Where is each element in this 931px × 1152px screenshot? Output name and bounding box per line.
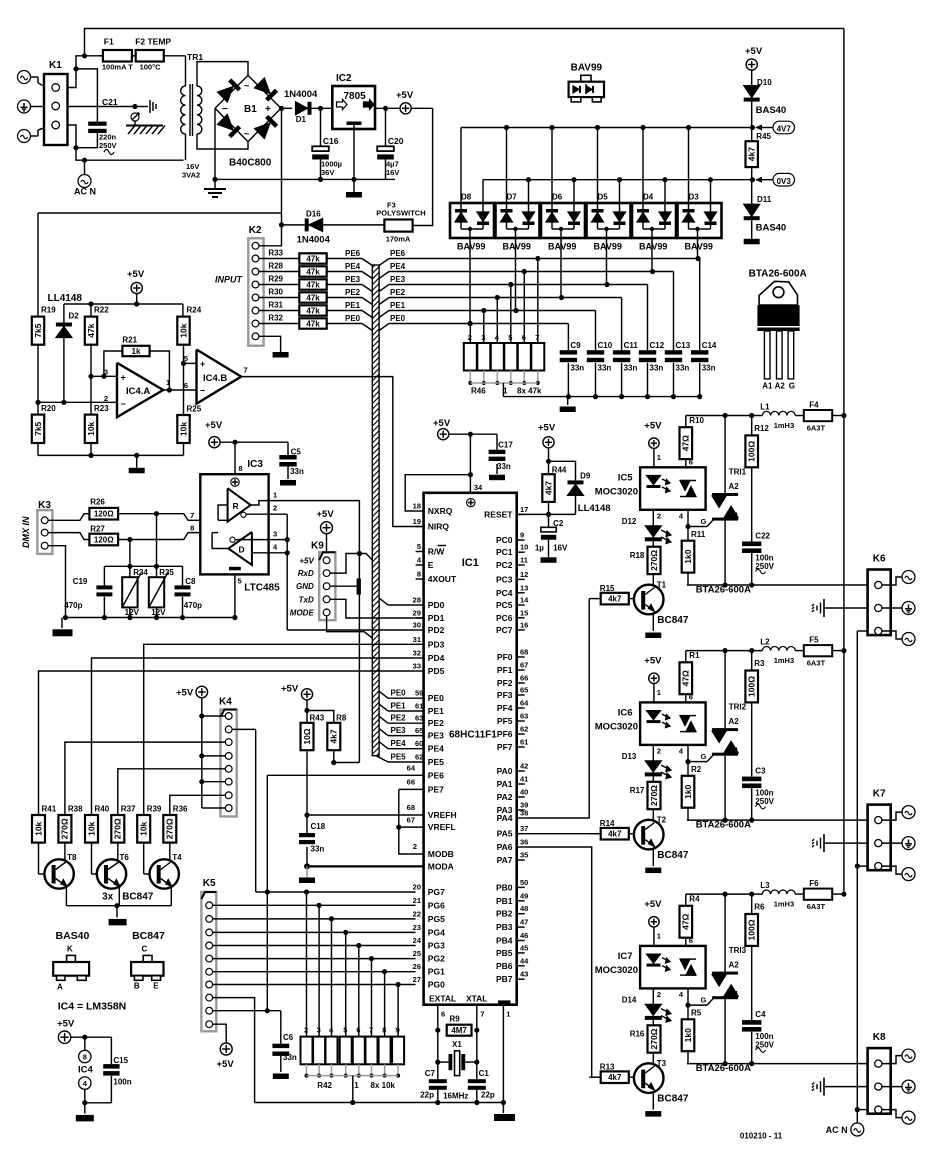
svg-text:IC7: IC7 [618,951,633,962]
svg-text:PE7: PE7 [428,784,444,794]
wire - K9 RxD to RO line [330,554,372,574]
transistor T4 BC847 [143,843,145,874]
svg-text:D7: D7 [507,193,518,202]
wire - R30 to bus PE [327,297,362,299]
svg-text:C7: C7 [425,1069,436,1078]
svg-text:~: ~ [244,81,249,91]
svg-text:D16: D16 [306,210,321,219]
capacitor C11 33n [613,350,630,354]
wire - +5V to IC3 pin8 and C5 [220,441,288,443]
svg-text:PE5: PE5 [428,757,444,767]
svg-text:68HC11F1: 68HC11F1 [449,730,497,741]
wire - +5V to NXRQ [405,475,470,511]
chassis earth symbol [149,100,151,113]
svg-text:MODA: MODA [428,861,454,871]
svg-text:F5: F5 [809,636,819,645]
svg-text:RxD: RxD [298,569,314,578]
svg-text:K5: K5 [203,878,216,889]
svg-text:PC7: PC7 [496,625,513,635]
svg-text:BAV99: BAV99 [685,242,713,252]
svg-text:PC5: PC5 [496,600,513,610]
svg-text:B: B [134,982,140,991]
svg-text:PG6: PG6 [428,900,445,910]
svg-text:TxD: TxD [299,595,314,604]
svg-text:PF2: PF2 [497,678,513,688]
svg-text:3VA2: 3VA2 [182,171,200,180]
wire - R32 to bus PE [327,323,362,325]
svg-text:BTA26-600A: BTA26-600A [749,269,807,280]
svg-text:IC4.A: IC4.A [126,386,150,397]
svg-text:7: 7 [480,1010,484,1019]
diode array rail 0V3 [483,179,752,181]
svg-text:C3: C3 [755,767,766,776]
svg-text:43: 43 [520,970,528,979]
svg-text:PB4: PB4 [496,936,513,946]
svg-text:35: 35 [520,851,528,860]
svg-text:A1: A1 [762,382,773,391]
wire - TR1 secondary to bridge [197,62,248,86]
IC1 right pins [517,513,525,515]
svg-text:47k: 47k [306,307,320,316]
diode array rail 4V7 [461,127,752,129]
svg-text:63: 63 [415,714,423,723]
svg-text:PD2: PD2 [428,625,445,635]
wire - K7 pin3 to neutral bus [857,865,867,867]
ground rail under supply [215,178,395,180]
svg-text:+5V: +5V [205,420,223,431]
svg-text:LTC485: LTC485 [244,583,280,594]
wire - K9 GND bar [330,585,356,587]
svg-text:22p: 22p [420,1090,434,1099]
svg-text:+5V: +5V [217,1059,235,1070]
ground symbol below bridge [214,179,216,189]
svg-text:PA2: PA2 [497,792,513,802]
capacitor C14 33n [691,350,708,354]
diode D10 BAS40 [751,70,753,86]
svg-text:1: 1 [506,1010,510,1019]
svg-text:+: + [121,373,126,383]
svg-text:R29: R29 [268,275,283,284]
wire - IC3 pins 2-3-4 junction [286,514,288,630]
svg-text:33n: 33n [676,364,690,373]
svg-text:R28: R28 [268,262,283,271]
svg-text:33: 33 [413,662,421,671]
capacitor C21 [76,69,97,122]
svg-text:7805: 7805 [344,91,367,102]
node 0V3 [755,177,762,183]
svg-text:8: 8 [417,570,421,579]
wire - PD3 row to R39 [144,644,416,815]
svg-text:R8: R8 [336,714,347,723]
wire - K5 pin10 to +5V [213,1024,226,1043]
svg-text:PG4: PG4 [428,927,445,937]
svg-text:33n: 33n [598,364,612,373]
svg-text:R39: R39 [147,805,162,814]
svg-text:R6: R6 [754,903,765,912]
svg-text:PE1: PE1 [391,702,407,711]
svg-text:10: 10 [520,543,528,552]
svg-text:PF6: PF6 [497,729,513,739]
svg-text:T1: T1 [657,581,667,590]
svg-text:4XOUT: 4XOUT [428,574,457,584]
svg-text:R11: R11 [691,530,706,539]
wires - K4 even pins to +5V [202,715,225,717]
svg-text:R12: R12 [754,424,769,433]
capacitor C10 33n [587,350,604,354]
svg-text:10k: 10k [178,422,188,436]
svg-text:2: 2 [413,842,417,851]
svg-text:100mA T: 100mA T [102,63,133,72]
svg-text:PB3: PB3 [496,922,513,932]
ground bar C18 [306,866,308,877]
wire - PE row right of bus [379,259,389,266]
svg-text:38: 38 [520,809,528,818]
capacitor C12 33n [639,350,656,354]
wire - PE6 long row [267,774,423,776]
svg-text:10k: 10k [139,821,149,835]
svg-text:R5: R5 [691,1009,702,1018]
svg-text:63: 63 [520,712,528,721]
svg-text:PA0: PA0 [497,766,513,776]
wire - K1 neutral down [68,125,184,160]
svg-text:PE1: PE1 [345,301,361,310]
svg-text:PB5: PB5 [496,948,513,958]
svg-text:G: G [789,382,795,391]
svg-text:11: 11 [520,556,528,565]
svg-text:16: 16 [520,621,528,630]
wire - R43 to VREFH row [306,750,308,833]
capacitor C9 33n [560,350,577,354]
svg-text:T3: T3 [657,1059,667,1068]
svg-text:33n: 33n [497,462,511,471]
svg-text:C16: C16 [323,136,339,146]
svg-text:100°C: 100°C [140,63,162,72]
wire - PG row [213,918,416,920]
svg-text:D14: D14 [622,996,637,1005]
svg-text:PE0: PE0 [428,693,444,703]
svg-text:1: 1 [273,491,277,500]
svg-text:PE4: PE4 [390,262,406,271]
svg-text:R24: R24 [187,306,202,315]
svg-text:PE4: PE4 [345,262,361,271]
svg-text:PB6: PB6 [496,961,513,971]
hatched earth plate [126,125,163,127]
ground bar bottom right [502,1103,504,1114]
ground rail opamps [38,454,184,456]
svg-text:2: 2 [273,504,277,513]
svg-text:MODE: MODE [290,608,315,617]
svg-text:+5V: +5V [317,509,335,520]
svg-text:PF1: PF1 [497,665,513,675]
svg-text:E: E [153,982,159,991]
svg-text:TRI1: TRI1 [729,468,747,477]
wire - IC3 pin4 [252,552,287,554]
wire - IC3 pin2 [246,513,287,515]
ground bar C5 [280,480,296,486]
wire - PE row right of bus [379,272,389,279]
svg-text:PE2: PE2 [390,288,406,297]
svg-text:7k5: 7k5 [33,323,43,337]
svg-text:XTAL: XTAL [466,994,488,1004]
svg-text:C18: C18 [311,822,326,831]
ground bar [567,397,569,405]
svg-text:40: 40 [520,788,528,797]
svg-text:PC1: PC1 [496,547,513,557]
wire - R31 to bus PE [327,310,362,312]
svg-text:BAV99: BAV99 [594,242,622,252]
wire - K9 TxD / PD1 [330,599,423,618]
wire - R33 to bus PE [327,258,362,260]
svg-text:R2: R2 [691,765,702,774]
svg-text:7: 7 [244,366,248,375]
svg-text:PC3: PC3 [496,574,513,584]
svg-text:AC N: AC N [826,1125,848,1135]
svg-text:8: 8 [83,1053,87,1062]
svg-text:INPUT: INPUT [215,275,244,285]
IC4 pin 4 circle [79,1077,91,1089]
svg-text:B40C800: B40C800 [229,158,272,169]
svg-text:C22: C22 [755,532,770,541]
svg-text:C11: C11 [624,341,639,350]
resistor R31 47k [259,310,299,312]
bottom ground rail [255,1102,504,1104]
svg-text:6: 6 [441,1010,445,1019]
wire - R26 to IC3 pin7 [118,514,218,521]
svg-text:D6: D6 [552,193,563,202]
svg-text:NXRQ: NXRQ [428,506,453,516]
svg-text:33n: 33n [624,364,638,373]
svg-text:PC4: PC4 [496,588,513,598]
svg-text:IC4 = LM358N: IC4 = LM358N [58,1001,127,1013]
svg-text:30: 30 [413,621,421,630]
K6 phase symbols [882,577,902,585]
bridge rectifier B1 [215,75,281,141]
svg-text:BAV99: BAV99 [548,242,576,252]
wire - PG row [213,945,416,947]
svg-text:R13: R13 [600,1063,615,1072]
transistor T8 BC847 [38,843,40,874]
svg-text:PE1: PE1 [428,706,444,716]
IC3 pin5 to ground [234,574,236,617]
triac channel 3 [589,889,867,1117]
svg-text:R43: R43 [310,714,325,723]
wire - MODA row (thick) [307,865,424,867]
wire - opamp +5V rail [64,303,183,305]
svg-text:10k: 10k [86,821,96,835]
svg-text:4k7: 4k7 [747,147,757,161]
wire - K5 pin8 to ground [213,998,255,1103]
svg-text:R19: R19 [41,306,56,315]
svg-text:47k: 47k [306,255,320,264]
svg-text:LL4148: LL4148 [48,293,83,304]
svg-text:47k: 47k [306,294,320,303]
svg-text:C4: C4 [755,1010,766,1019]
svg-text:T8: T8 [67,853,77,862]
svg-text:−: − [200,386,205,396]
svg-text:R41: R41 [42,805,57,814]
svg-text:24: 24 [413,936,422,945]
IC3 internal wires [218,519,228,521]
svg-text:47k: 47k [306,320,320,329]
svg-text:BAV99: BAV99 [571,63,603,74]
svg-text:PD0: PD0 [428,600,445,610]
svg-text:R17: R17 [630,786,645,795]
svg-text:20: 20 [413,883,421,892]
wire - K2 pin1 to D16 line [259,225,282,246]
wire - IC2 output to +5V [375,107,433,109]
svg-text:C21: C21 [102,97,118,107]
receiver R triangle [228,488,251,521]
svg-text:−: − [121,399,126,409]
svg-text:65: 65 [520,686,528,695]
svg-text:K7: K7 [873,789,886,800]
svg-text:8: 8 [190,524,194,533]
svg-text:RESET: RESET [484,509,513,519]
svg-text:L2: L2 [760,638,770,647]
transistor T6 BC847 [91,843,93,874]
svg-text:K6: K6 [873,554,886,565]
svg-text:PB2: PB2 [496,909,513,919]
wire - PE row right of bus [379,311,389,318]
svg-text:120Ω: 120Ω [94,536,114,545]
resistor R9 4M7 [447,1025,472,1036]
wire - IC3 pin3 [235,539,287,541]
svg-text:C9: C9 [570,341,581,350]
svg-text:1: 1 [354,1081,359,1090]
svg-text:R32: R32 [268,314,283,323]
wire - K5 pin9 / C6 / PE6 link [213,1010,281,1012]
svg-text:F1: F1 [104,37,114,47]
wire - K3 pin3 to ground [49,546,66,618]
svg-text:22: 22 [413,909,421,918]
svg-text:62: 62 [415,753,423,762]
wire - PE row right of bus [379,298,389,305]
svg-text:+5V: +5V [433,418,451,429]
svg-text:12: 12 [520,570,528,579]
ground bar K2 [273,352,289,358]
svg-text:45: 45 [520,943,528,952]
svg-text:13: 13 [520,583,528,592]
IC3 ground tab [229,567,241,571]
ground bar DMX [61,618,63,629]
svg-text:59: 59 [415,689,423,698]
svg-text:PE0: PE0 [345,314,361,323]
svg-text:IC3: IC3 [247,459,263,470]
svg-text:C: C [142,945,148,954]
svg-text:D10: D10 [757,78,772,87]
svg-text:PB0: PB0 [496,882,513,892]
svg-text:D13: D13 [622,752,637,761]
svg-text:R40: R40 [95,805,110,814]
svg-text:PE2: PE2 [391,714,407,723]
svg-text:R37: R37 [121,805,136,814]
ground bar under IC2 [346,192,362,198]
svg-text:R33: R33 [268,249,283,258]
wire - unregulated node to D16 [281,108,283,225]
svg-text:−: − [222,104,228,115]
svg-text:47k: 47k [86,323,96,337]
mains live bus right [843,29,845,895]
ground bar under D11 [744,239,760,245]
net label AC N [84,160,86,174]
svg-text:BAV99: BAV99 [503,242,531,252]
svg-text:27: 27 [413,975,421,984]
svg-text:34: 34 [474,483,483,492]
resistor R29 47k [259,284,299,286]
svg-text:470p: 470p [184,601,202,610]
resistor R28 47k [259,271,299,273]
wire - F3 to +5V rail [413,108,433,225]
svg-text:PG0: PG0 [428,980,445,990]
svg-text:17: 17 [520,505,528,514]
svg-text:PF4: PF4 [497,703,513,713]
svg-text:PE5: PE5 [391,753,407,762]
svg-text:66: 66 [520,674,528,683]
svg-text:68: 68 [407,803,415,812]
wire - +5V to K4 pins [201,698,203,808]
svg-text:K: K [67,945,73,954]
op-amp IC4.A [117,363,163,417]
wire - PG7 row [256,891,416,893]
svg-text:PE4: PE4 [428,744,444,754]
svg-text:R20: R20 [41,404,56,413]
svg-text:9: 9 [520,531,524,540]
svg-text:PB1: PB1 [496,896,513,906]
svg-text:D5: D5 [598,193,609,202]
svg-text:+5V: +5V [396,90,414,101]
wire - PE row right of bus [379,285,389,292]
svg-text:470p: 470p [64,601,82,610]
svg-text:PC6: PC6 [496,613,513,623]
svg-text:F6: F6 [809,879,819,888]
svg-text:D9: D9 [580,472,591,481]
svg-text:PC2: PC2 [496,560,513,570]
svg-text:MODB: MODB [428,849,454,859]
svg-text:21: 21 [413,896,421,905]
svg-text:3: 3 [273,530,277,539]
svg-text:R42: R42 [317,1081,332,1090]
svg-text:IC4: IC4 [78,1065,94,1076]
svg-text:+5V: +5V [281,684,299,695]
ground bar C17 [489,475,505,481]
svg-text:16V: 16V [386,168,399,177]
svg-text:010210 - 11: 010210 - 11 [740,1132,783,1141]
wire - IC3 pin1 RO [251,501,360,763]
svg-text:8x 10k: 8x 10k [371,1081,396,1090]
triac channel 2 [589,645,867,873]
resistor R30 47k [259,297,299,299]
svg-text:BC847: BC847 [122,891,154,902]
svg-text:44: 44 [520,956,529,965]
svg-text:PE6: PE6 [390,249,406,258]
wire - PG row [213,971,416,973]
wire - R15 to PA4 [525,599,590,818]
svg-text:PA5: PA5 [497,829,513,839]
svg-text:PE3: PE3 [428,731,444,741]
K8 phase symbols [882,1056,902,1064]
svg-text:29: 29 [413,609,421,618]
svg-text:A2: A2 [775,382,786,391]
wire - mains live top rail [85,29,844,56]
svg-text:PA6: PA6 [497,842,513,852]
svg-text:47k: 47k [306,281,320,290]
spark gap arrester [131,113,139,121]
wire - C15 ground link [85,1102,112,1104]
svg-text:1N4004: 1N4004 [297,235,331,246]
svg-text:BAV99: BAV99 [639,242,667,252]
svg-text:T4: T4 [172,853,182,862]
svg-text:10Ω: 10Ω [302,728,312,744]
